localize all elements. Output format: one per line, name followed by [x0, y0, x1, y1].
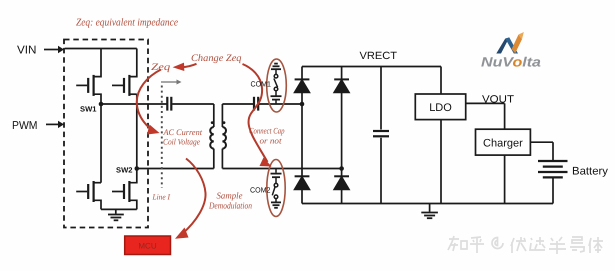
svg-text:Zeq: equivalent impedance: Zeq: equivalent impedance	[76, 18, 178, 29]
svg-text:Battery: Battery	[572, 166, 609, 178]
svg-text:Change Zeq: Change Zeq	[191, 53, 242, 64]
svg-text:SW1: SW1	[80, 105, 97, 114]
svg-text:Sample: Sample	[217, 191, 243, 201]
svg-text:VOUT: VOUT	[482, 94, 515, 106]
svg-text:SW2: SW2	[116, 165, 133, 174]
svg-text:Line I: Line I	[152, 193, 171, 202]
svg-text:NuVolta: NuVolta	[481, 55, 542, 70]
svg-text:Demodulation: Demodulation	[208, 201, 252, 211]
svg-text:LDO: LDO	[429, 102, 452, 114]
svg-text:Charger: Charger	[483, 138, 523, 150]
svg-text:VIN: VIN	[17, 45, 37, 57]
svg-text:COM2: COM2	[250, 186, 271, 195]
svg-text:VRECT: VRECT	[360, 50, 398, 62]
svg-text:AC Current: AC Current	[163, 127, 203, 137]
svg-text:MCU: MCU	[138, 242, 156, 251]
svg-text:COM1: COM1	[251, 80, 272, 89]
svg-text:Connect Cap: Connect Cap	[249, 126, 285, 136]
svg-text:or not: or not	[260, 136, 283, 146]
svg-text:Zeq: Zeq	[151, 62, 170, 73]
svg-text:PWM: PWM	[12, 120, 38, 132]
svg-text:Coil Voltage: Coil Voltage	[163, 137, 200, 147]
